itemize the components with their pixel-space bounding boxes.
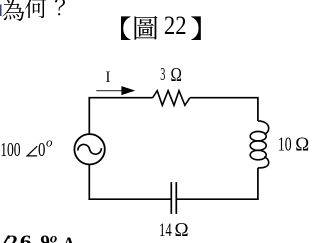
- svg-text:22: 22: [164, 12, 187, 41]
- svg-text:Ω: Ω: [175, 218, 189, 241]
- angle symbol: [27, 146, 37, 156]
- angle symbol fragment: [4, 236, 9, 243]
- cut-off character fragment at left edge: [0, 5, 2, 17]
- svg-text:14: 14: [159, 218, 172, 241]
- resistor R 3ohm zigzag: [153, 91, 190, 106]
- svg-text:o: o: [46, 134, 53, 149]
- svg-text:10: 10: [278, 132, 292, 155]
- wire top (resistor to top-right corner): [190, 98, 258, 121]
- current arrow I line: [96, 90, 124, 92]
- figure label bracket 】: [191, 16, 201, 40]
- answer text (cut off at bottom): angle 26.9 deg A: [4, 230, 75, 243]
- svg-text:3: 3: [160, 65, 165, 85]
- svg-text:A: A: [62, 234, 75, 243]
- AC source sine wave: [78, 144, 102, 154]
- capacitor C right plate: [175, 182, 177, 214]
- inductor L loop 2: [250, 141, 266, 151]
- svg-text:6: 6: [20, 231, 32, 243]
- text char 何: [25, 0, 46, 18]
- AC source VS circle: [74, 134, 104, 164]
- text char ？: [55, 0, 65, 15]
- svg-text:0: 0: [38, 138, 46, 161]
- capacitor C left plate: [170, 182, 172, 214]
- svg-text:Ω: Ω: [295, 134, 309, 156]
- inductor L loop 3: [250, 150, 266, 160]
- inductor L loop 1: [250, 131, 266, 141]
- inductor L bottom hook: [258, 157, 269, 168]
- wire bottom (capacitor to bottom-left corner): [89, 165, 171, 200]
- current arrow I head: [121, 86, 135, 95]
- text char 為: [2, 0, 24, 21]
- svg-text:I: I: [106, 68, 111, 86]
- figure label char 圖: [135, 16, 158, 40]
- wire top (left segment to resistor): [89, 98, 152, 135]
- figure label bracket 【: [121, 16, 131, 40]
- wire right (inductor to bottom-right corner): [177, 168, 258, 199]
- svg-text:2: 2: [7, 230, 18, 243]
- svg-text:o: o: [50, 231, 57, 243]
- inductor L top hook: [258, 121, 269, 134]
- svg-text:100: 100: [0, 138, 20, 160]
- svg-text:Ω: Ω: [171, 63, 182, 86]
- svg-text:9: 9: [40, 232, 50, 243]
